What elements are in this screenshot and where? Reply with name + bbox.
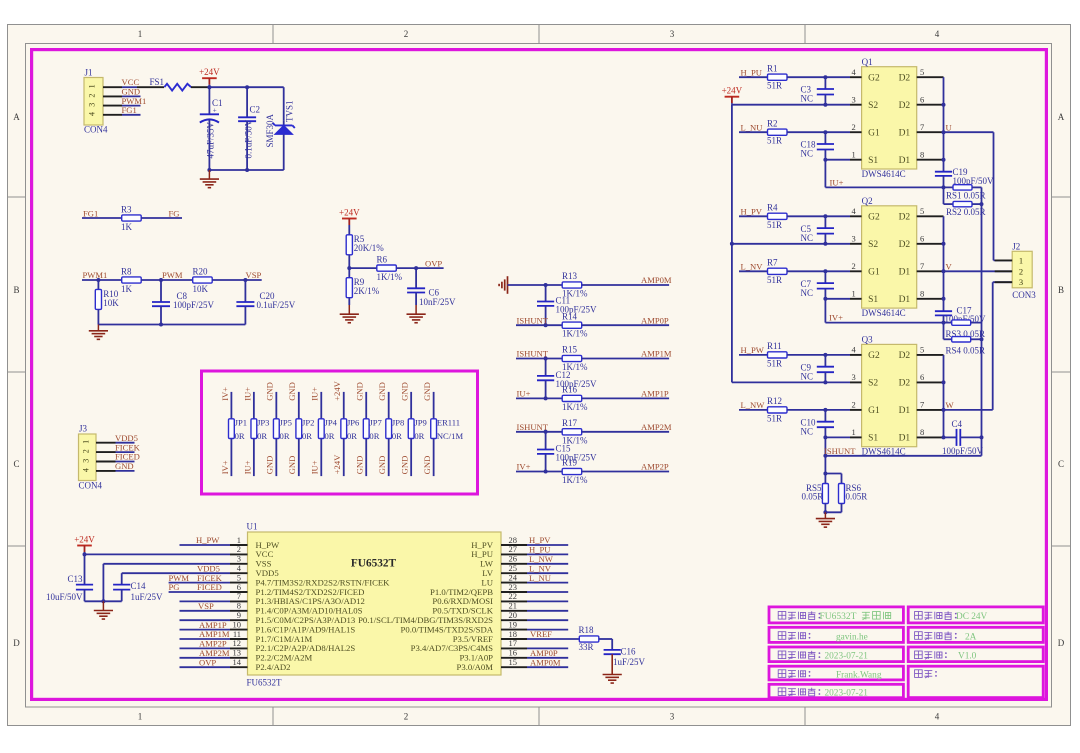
node C2 tap [245, 85, 249, 89]
svg-text:D2: D2 [899, 379, 911, 389]
svg-text:8: 8 [920, 289, 924, 299]
svg-text:FU6532T: FU6532T [820, 612, 857, 622]
svg-text:RS4 0.05R: RS4 0.05R [946, 346, 986, 356]
svg-text:Q3: Q3 [862, 335, 873, 345]
wire R1-G2 [787, 75, 850, 79]
wire VSP pin8 [180, 610, 231, 612]
svg-text:1: 1 [852, 427, 856, 437]
svg-text:JP9: JP9 [414, 418, 426, 428]
title text design date [778, 651, 868, 662]
svg-text:R20: R20 [193, 267, 209, 277]
resistor R6 1K/1% [377, 254, 403, 282]
net label H_PU (pin27) [529, 545, 551, 555]
net label L_NV [741, 262, 764, 272]
net label IV+ [829, 313, 843, 323]
net label IV+ (AMP2P row) [517, 462, 531, 472]
svg-text:7: 7 [920, 122, 924, 132]
wire RS5/RS6 top split [823, 472, 841, 484]
svg-text:IU+: IU+ [310, 460, 320, 474]
svg-text:C16: C16 [621, 647, 637, 657]
wire AMP2P pin12 [180, 647, 231, 649]
svg-text:2: 2 [404, 712, 409, 722]
Q2 pin stubs [850, 206, 944, 299]
svg-text:1uF/25V: 1uF/25V [613, 657, 646, 667]
net label GND (top ER111) [422, 382, 432, 401]
wire R9-gnd [348, 298, 350, 305]
svg-text:IU+: IU+ [310, 387, 320, 401]
net label +24V (bottom JP6) [332, 454, 342, 474]
svg-text:1K/1%: 1K/1% [562, 475, 588, 485]
wire R2-G1 [787, 130, 850, 134]
svg-text:0R: 0R [392, 431, 402, 441]
jumper JP9 0R [408, 392, 427, 476]
svg-text:IV+: IV+ [517, 462, 531, 472]
svg-text:0.1uF/25V: 0.1uF/25V [257, 300, 296, 310]
net label IV+ (bottom JP1) [220, 460, 230, 474]
wire RS4 left leg [944, 323, 952, 340]
svg-text:Frank.Wang: Frank.Wang [836, 671, 882, 681]
svg-text:51R: 51R [767, 358, 782, 368]
svg-text:G1: G1 [868, 406, 880, 416]
wire L_NW-R12 [739, 409, 768, 411]
svg-text:1K/1%: 1K/1% [562, 402, 588, 412]
capacitor C12 100pF/25V [537, 359, 597, 399]
wire L_NU pin24 [527, 582, 568, 584]
svg-text:R6: R6 [377, 254, 388, 264]
svg-text:R15: R15 [562, 345, 578, 355]
wire H_PW-R11 [739, 354, 768, 356]
svg-text:GND: GND [265, 456, 275, 475]
svg-text:GND: GND [377, 382, 387, 401]
svg-text:S1: S1 [868, 156, 878, 166]
svg-text:R13: R13 [562, 271, 578, 281]
wire VREF pin18 [527, 638, 579, 640]
wire pin7 stub [180, 600, 231, 602]
title text remark [915, 670, 937, 678]
svg-text:+24V: +24V [332, 454, 342, 474]
resistor R18 33R [579, 625, 599, 652]
svg-text:1K/1%: 1K/1% [562, 329, 588, 339]
svg-text:C: C [1058, 459, 1064, 469]
svg-text:6: 6 [920, 95, 924, 105]
title text review date [778, 688, 868, 699]
svg-text:IV+: IV+ [829, 313, 843, 323]
wire AMP2M pin13 [180, 657, 231, 659]
J1 pin stubs [103, 87, 122, 115]
net label GND (bottom JP8) [377, 456, 387, 475]
svg-text:2: 2 [852, 122, 856, 132]
svg-text:ER111: ER111 [437, 418, 460, 428]
svg-text:IU+: IU+ [242, 387, 252, 401]
svg-text:8: 8 [920, 427, 924, 437]
wire R8-R20 [141, 278, 193, 282]
svg-text:0R: 0R [257, 431, 267, 441]
svg-text:JP3: JP3 [257, 418, 269, 428]
svg-text:NC/1M: NC/1M [437, 431, 464, 441]
svg-text:CON4: CON4 [79, 481, 103, 491]
svg-text:NC: NC [801, 233, 814, 243]
svg-text:2: 2 [82, 449, 91, 453]
svg-text:3: 3 [670, 29, 675, 39]
svg-text:OVP: OVP [199, 657, 216, 667]
net label AMP2P [641, 462, 669, 472]
svg-text:JP5: JP5 [280, 418, 292, 428]
connector J1 CON4 [84, 68, 108, 135]
wire H_PU-R1 [739, 76, 768, 78]
svg-text:R8: R8 [121, 267, 132, 277]
svg-text:JP8: JP8 [392, 418, 404, 428]
svg-text:P2.4/AD2: P2.4/AD2 [256, 662, 291, 672]
svg-text:W: W [946, 400, 955, 410]
svg-text:G1: G1 [868, 128, 880, 138]
svg-text:AMP1P: AMP1P [641, 389, 669, 399]
wire ISHUNT-R17 [516, 430, 562, 434]
svg-text:NC: NC [801, 426, 814, 436]
svg-text:1uF/25V: 1uF/25V [131, 592, 164, 602]
svg-text:A: A [13, 112, 20, 122]
resistor R9 2K/1% [346, 277, 380, 298]
net label L_NU (pin24) [529, 573, 552, 583]
svg-text:GND: GND [422, 382, 432, 401]
svg-text:2023-07-21: 2023-07-21 [825, 689, 869, 699]
svg-text:0.1uF/50V: 0.1uF/50V [244, 119, 254, 158]
resistor R3 1K [121, 205, 141, 232]
svg-text:S2: S2 [868, 101, 878, 111]
resistor R11 51R [767, 341, 787, 368]
net label OVP [425, 258, 442, 268]
svg-text:U: U [946, 122, 953, 132]
net label GND (bottom JP5) [265, 456, 275, 475]
svg-text:1: 1 [88, 84, 97, 88]
svg-text:IU+: IU+ [517, 389, 531, 399]
wire H_PV pin28 [527, 544, 568, 546]
svg-text:R3: R3 [121, 205, 132, 215]
net label L_NU [741, 122, 764, 132]
svg-text:10nF/25V: 10nF/25V [419, 297, 456, 307]
net label VCC [122, 77, 140, 87]
svg-text:1: 1 [82, 440, 91, 444]
J2 pin stubs [995, 260, 1013, 282]
capacitor C4 100pF/50V [942, 419, 984, 456]
wire S1 row Q2 [823, 297, 850, 301]
wire FICEK stub [116, 451, 135, 453]
wire PWM1-R8 [82, 278, 122, 282]
svg-text:8: 8 [920, 150, 924, 160]
resistor R8 1K [121, 267, 141, 294]
wire IV+ drop [824, 299, 826, 323]
jumper JP2 0R [296, 392, 315, 476]
capacitor C17 100pF/50V [935, 306, 986, 324]
wire R13-AMP0M [582, 284, 669, 286]
svg-text:D1: D1 [899, 406, 911, 416]
U1 right pins 28-15 [358, 535, 527, 672]
svg-text:R12: R12 [767, 396, 782, 406]
svg-text:47uF/35V: 47uF/35V [206, 121, 216, 158]
capacitor C18 NC [801, 132, 835, 160]
net label AMP1P (pin10) [199, 620, 227, 630]
wire input gnd rail [207, 168, 283, 172]
wire R6-OVP [396, 266, 443, 270]
svg-text:L_NU: L_NU [741, 122, 764, 132]
svg-text:FICED: FICED [197, 582, 222, 592]
net label H_PU [741, 67, 763, 77]
net label AMP0P [641, 315, 669, 325]
wire R7-G1 [787, 269, 850, 273]
net label AMP0M [641, 275, 672, 285]
svg-text:FG: FG [169, 208, 180, 218]
svg-text:20K/1%: 20K/1% [354, 243, 385, 253]
net label GND [115, 461, 134, 471]
net label FICED [115, 452, 140, 462]
svg-text:D1: D1 [899, 268, 911, 278]
wire pin17 stub [527, 647, 568, 649]
svg-text:JP1: JP1 [235, 418, 247, 428]
net label ISHUNT (AMP2M row) [517, 422, 549, 432]
svg-text:1: 1 [1019, 255, 1023, 265]
title block right column [908, 607, 1043, 698]
svg-text:2: 2 [852, 261, 856, 271]
svg-text:51R: 51R [767, 136, 782, 146]
svg-text:D: D [1058, 638, 1065, 648]
net label VDD5 (pin4) [197, 563, 220, 573]
wire AMP1M pin11 [180, 638, 231, 640]
jumper JP4 0R [318, 392, 337, 476]
capacitor C11 100pF/25V [537, 285, 597, 325]
wire L_NU-R2 [739, 131, 768, 133]
svg-text:10K: 10K [103, 298, 119, 308]
Q3 pin stubs [850, 345, 944, 438]
wire FICEK pin5 [169, 582, 230, 584]
svg-text:C: C [13, 459, 19, 469]
svg-text:V: V [946, 262, 953, 272]
wire S2 row Q1 [732, 103, 850, 107]
title text designer [778, 632, 868, 643]
net label L_NV (pin25) [529, 563, 552, 573]
svg-text:L_NU: L_NU [529, 573, 552, 583]
svg-text:0R: 0R [302, 431, 312, 441]
svg-text:R1: R1 [767, 63, 778, 73]
net label PWM1 (row) [83, 270, 108, 280]
wire RS2 left leg [944, 187, 954, 204]
svg-text:4: 4 [82, 468, 91, 472]
connector J3 CON4 [79, 424, 103, 491]
MCU U1 FU6532T body [247, 522, 502, 688]
svg-text:GND: GND [287, 382, 297, 401]
capacitor C10 NC [801, 410, 835, 438]
svg-text:NC: NC [801, 94, 814, 104]
capacitor C19 100pF/50V [935, 167, 994, 187]
svg-text:2: 2 [1019, 266, 1023, 276]
svg-text:AMP2M: AMP2M [641, 422, 672, 432]
svg-text:DWS4614C: DWS4614C [862, 308, 906, 318]
wire +24V left rail [730, 105, 734, 383]
svg-text:Q2: Q2 [862, 196, 873, 206]
wire FICED pin6 [169, 591, 230, 593]
svg-text:NC: NC [801, 371, 814, 381]
wire ISHUNT-R15 [516, 357, 562, 361]
option box border [202, 371, 478, 494]
svg-text:IV+: IV+ [220, 460, 230, 474]
net label U [946, 122, 953, 132]
svg-text:R7: R7 [767, 258, 778, 268]
wire R17-AMP2M [582, 431, 669, 433]
resistor RS5 0.05R [802, 483, 829, 504]
svg-text:AMP0P: AMP0P [641, 315, 669, 325]
node +24V junction [207, 85, 211, 89]
wire ISHUNT drop [823, 437, 827, 473]
svg-text:FS1: FS1 [150, 77, 165, 87]
wire pin19 stub [527, 629, 568, 631]
svg-text:5: 5 [920, 67, 924, 77]
title text version [915, 651, 977, 662]
svg-text:3: 3 [82, 459, 91, 463]
svg-text:0.05R: 0.05R [846, 492, 868, 502]
net label GND (bottom ER111) [422, 456, 432, 475]
resistor R15 1K/1% [562, 345, 588, 372]
wire FICED stub [116, 461, 135, 463]
wire IU+ drop [824, 160, 826, 188]
svg-text:2A: 2A [965, 632, 977, 642]
wire R14-AMP0P [582, 324, 669, 326]
svg-text:NC: NC [801, 288, 814, 298]
resistor R20 10K [193, 267, 213, 294]
wire Q1 drain bus [942, 77, 946, 172]
wire gnd-R13 [508, 283, 563, 287]
svg-text:R16: R16 [562, 385, 578, 395]
svg-text:+24V: +24V [199, 67, 220, 77]
svg-text:2: 2 [404, 29, 409, 39]
resistor RS2 0.05R [946, 201, 986, 217]
svg-text:C4: C4 [952, 419, 963, 429]
ground R9 [340, 305, 359, 323]
wire pin20 stub [527, 619, 568, 621]
svg-text:3: 3 [852, 372, 856, 382]
net label AMP0P (pin16) [530, 648, 558, 658]
power +24V divider [339, 208, 360, 235]
svg-text:AMP1M: AMP1M [641, 349, 672, 359]
net label VDD5 [115, 433, 138, 443]
svg-text:ISHUNT: ISHUNT [517, 349, 549, 359]
transistor Q2 DWS4614C [862, 196, 917, 318]
svg-text:0R: 0R [324, 431, 334, 441]
wire R11-G2 [787, 353, 850, 357]
svg-text:P3.0/A0M: P3.0/A0M [457, 662, 494, 672]
net label H_PV [741, 207, 763, 217]
wire RS1-chain [972, 187, 982, 204]
svg-text:+24V: +24V [339, 208, 360, 218]
svg-text:R14: R14 [562, 311, 578, 321]
svg-text:R19: R19 [562, 458, 578, 468]
transistor Q3 DWS4614C [862, 335, 917, 457]
svg-text:AMP2P: AMP2P [641, 462, 669, 472]
svg-text:JP7: JP7 [369, 418, 382, 428]
resistor R14 1K/1% [562, 311, 588, 338]
power +24V MCU [74, 535, 95, 555]
wire pwm gnd rail [98, 323, 245, 327]
svg-text:IU+: IU+ [830, 177, 844, 187]
svg-text:1K/1%: 1K/1% [377, 272, 403, 282]
svg-text:JP2: JP2 [302, 418, 314, 428]
wire IU+ row [825, 185, 953, 189]
net label GND (bottom JP7) [355, 456, 365, 475]
net label IU+ [830, 177, 844, 187]
resistor R19 1K/1% [562, 458, 588, 485]
svg-text:VCC: VCC [122, 77, 140, 87]
wire R20-VSP [212, 278, 262, 282]
wire RS5/RS6 bottom join [823, 504, 841, 515]
net label IU+ (bottom JP3) [242, 460, 252, 474]
svg-text:D2: D2 [899, 213, 911, 223]
svg-text:H_PW: H_PW [741, 345, 765, 355]
resistor R5 20K/1% [346, 234, 384, 255]
wire S1 row Q1 [823, 158, 850, 162]
net label GND (top JP9) [400, 382, 410, 401]
fuse FS1 [137, 77, 209, 91]
net label +24V (top JP6) [332, 380, 342, 400]
svg-text:7: 7 [920, 261, 924, 271]
svg-text:1: 1 [852, 289, 856, 299]
svg-text:G2: G2 [868, 73, 880, 83]
capacitor C5 NC [801, 216, 835, 244]
net label AMP2P (pin12) [199, 639, 227, 649]
net label PG (pin6) [169, 582, 180, 592]
wire shunt chain vertical [981, 204, 983, 456]
Q1 pin stubs [850, 67, 944, 160]
TVS diode TVS1 SMF30A [265, 100, 295, 170]
wire VDD5 pin4 [122, 572, 230, 574]
net label AMP2M [641, 422, 672, 432]
wire R4-G2 [787, 214, 850, 218]
svg-text:GND: GND [115, 461, 134, 471]
wire IV+-R19 [516, 470, 562, 474]
net label AMP2M (pin13) [199, 648, 230, 658]
wire IV+ row [825, 321, 951, 325]
svg-text:3: 3 [88, 103, 97, 107]
net label IU+ (bottom JP4) [310, 460, 320, 474]
svg-text:D: D [13, 638, 20, 648]
svg-text:1: 1 [852, 150, 856, 160]
net label PWM [162, 270, 183, 280]
svg-text:10K: 10K [193, 284, 209, 294]
svg-text:DC 24V: DC 24V [956, 612, 988, 622]
svg-text:S2: S2 [868, 379, 878, 389]
svg-text:D2: D2 [899, 101, 911, 111]
svg-text:0.05R: 0.05R [802, 492, 824, 502]
net label GND (bottom JP9) [400, 456, 410, 475]
wire RS3-chain [971, 322, 982, 324]
wire VDD5 stub [116, 442, 135, 444]
svg-text:4: 4 [935, 712, 940, 722]
wire pin22 stub [527, 600, 568, 602]
svg-text:IV+: IV+ [220, 387, 230, 401]
svg-text:3: 3 [1019, 277, 1023, 287]
svg-text:S1: S1 [868, 434, 878, 444]
net label PWM (pin5) [169, 573, 190, 583]
jumper JP7 0R [363, 392, 382, 476]
wire pin21 stub [527, 610, 568, 612]
svg-text:0R: 0R [369, 431, 379, 441]
ground AMP0M reference [499, 276, 507, 294]
svg-text:14: 14 [233, 657, 242, 667]
wire VCC [122, 86, 137, 88]
net label AMP1M [641, 349, 672, 359]
svg-text:C2: C2 [250, 105, 261, 115]
svg-text:C14: C14 [131, 581, 147, 591]
svg-text:0R: 0R [347, 431, 357, 441]
svg-text:G2: G2 [868, 213, 880, 223]
net label IU+ (top JP3) [242, 387, 252, 401]
resistor RS6 0.05R [839, 483, 868, 504]
